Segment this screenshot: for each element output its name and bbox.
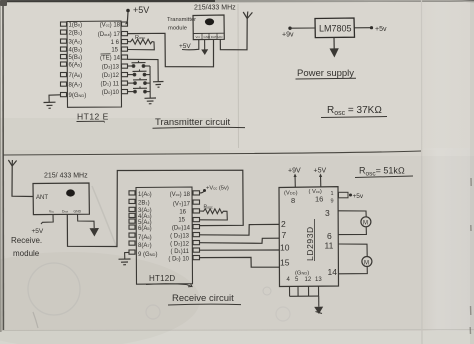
svg-text:M: M [363, 221, 368, 227]
label 215/433 MHz (RX) [44, 173, 88, 180]
svg-text:( D3)13: ( D3)13 [170, 234, 190, 240]
value label Rosc = 51kOhm [355, 166, 413, 178]
svg-text:13: 13 [315, 277, 322, 283]
svg-text:(D2)12: (D2)12 [102, 73, 120, 79]
node +5V (TX module) [179, 43, 191, 50]
IC U4 L293D motor driver body [279, 187, 339, 287]
svg-text:(Vcc) 18: (Vcc) 18 [170, 192, 191, 198]
svg-text:7: 7 [282, 230, 287, 240]
wires L293D pins 4,5,12,13 to ground [290, 286, 319, 307]
svg-text:3: 3 [325, 208, 330, 218]
svg-text:215/ 433 MHz: 215/ 433 MHz [44, 173, 88, 180]
svg-text:15: 15 [178, 218, 185, 224]
wire Dout pin 17 to TX module DATA [128, 33, 214, 67]
svg-text:6(A5): 6(A5) [69, 63, 83, 69]
wire +5V to L293D pin 16 [319, 174, 322, 187]
value label Rosc (HT12E) [135, 35, 145, 41]
node +5V (LM7805 output) [370, 26, 387, 33]
svg-text:(Vcc) 18: (Vcc) 18 [100, 23, 121, 29]
svg-text:+5V: +5V [133, 5, 149, 15]
svg-text:6: 6 [327, 231, 332, 241]
wire LM7805 output to +5V node [355, 27, 372, 29]
IC U1 HT12E encoder body [61, 21, 128, 107]
svg-text:7(A6): 7(A6) [138, 235, 152, 241]
wire LM7805 GND [333, 37, 335, 48]
pushbutton S2 (D2, pin12) [128, 69, 151, 75]
svg-text:9(GND): 9(GND) [69, 93, 87, 99]
wire D0 (pin10) to L293D pin 15 [200, 257, 280, 267]
svg-text:(D3)13: (D3)13 [102, 65, 120, 71]
HT12E left pin labels 1(A0)..9(GND) [69, 23, 87, 100]
svg-text:Vcc: Vcc [49, 210, 55, 214]
svg-text:Power supply: Power supply [297, 68, 354, 79]
label Transmitter module [167, 17, 196, 32]
svg-text:16: 16 [179, 210, 186, 216]
svg-text:11: 11 [325, 241, 334, 251]
wire +5V node to pin 18 [126, 12, 129, 24]
svg-text:+5V: +5V [32, 228, 44, 235]
svg-text:4(B3): 4(B3) [69, 48, 83, 54]
label Receiver module [11, 236, 42, 258]
pushbutton S3 (D1, pin11) [128, 78, 151, 84]
svg-text:+5v: +5v [353, 193, 364, 200]
svg-text:1(A0): 1(A0) [138, 192, 152, 198]
label 215/433 MHz (TX) [194, 5, 236, 12]
label Receive circuit [168, 293, 241, 305]
wire +9V to LM7805 input [290, 27, 315, 29]
svg-text:+Vcc (5v): +Vcc (5v) [206, 186, 229, 192]
svg-text:module: module [13, 249, 40, 258]
svg-text:5(B4): 5(B4) [69, 55, 83, 61]
svg-text:7(A6): 7(A6) [69, 73, 83, 79]
svg-text:3(A2): 3(A2) [69, 40, 83, 46]
svg-text:( D0) 10: ( D0) 10 [168, 257, 189, 263]
wire D3 (pin13) to L293D pin 2 [200, 224, 280, 235]
antenna (RX) [8, 160, 16, 166]
transmitter module TX1 (215/433 MHz) [193, 15, 224, 40]
svg-text:GND: GND [74, 210, 82, 214]
receiver module RX1 (215/433 MHz) [33, 183, 89, 215]
L293D pins 1,9 enable stub [331, 191, 349, 205]
node +5V (L293D Vcc) [314, 168, 327, 175]
svg-text:LD293D: LD293D [305, 226, 315, 261]
svg-text:Receive circuit: Receive circuit [172, 293, 234, 304]
L293D right pin labels 3 6 11 14 [325, 208, 338, 277]
wire pin 3 to motor M1 [339, 211, 367, 217]
svg-text:AN: AN [218, 35, 222, 39]
node +5V (L293D enable 1,9) [349, 193, 364, 200]
wire HT12D pin 9 to ground [125, 252, 129, 259]
wire RX GND pin [78, 214, 95, 228]
ground (HT12D) [119, 259, 131, 265]
antenna (TX) [243, 12, 252, 19]
wire RX Vcc to +5V [41, 215, 53, 225]
node +Vcc (5v) for HT12D pin 18 [203, 186, 229, 193]
resistor Rosc (HT12E oscillator) [128, 39, 155, 50]
divider line between transmitter and receiver sections [3, 151, 421, 155]
svg-text:(D0)10: (D0)10 [102, 90, 120, 96]
L293D ground pin labels (GND) 4 5 12 13 [287, 271, 323, 284]
wire motor M1 to pin 6 [339, 227, 367, 235]
ground (TX module GND pin) [201, 40, 208, 56]
wire +9V to L293D pin 8 [294, 174, 297, 188]
svg-text:+5V: +5V [179, 43, 191, 50]
svg-text:(Din)14: (Din)14 [172, 226, 191, 232]
svg-text:(TE) 14: (TE) 14 [100, 56, 121, 62]
svg-text:+5V: +5V [314, 168, 327, 175]
ground (L293D) [314, 307, 323, 314]
ground (LM7805) [330, 48, 339, 57]
svg-text:+5v: +5v [375, 26, 387, 33]
svg-text:6(A5): 6(A5) [138, 226, 152, 232]
svg-text:2(B1): 2(B1) [69, 31, 83, 37]
svg-text:2B1): 2B1) [138, 201, 150, 207]
regulator U2 LM7805 [315, 18, 355, 38]
svg-text:ANT: ANT [36, 195, 48, 201]
svg-text:8(A7): 8(A7) [138, 243, 152, 249]
label HT12E [77, 112, 109, 123]
wire TX ANT pin to antenna [220, 19, 247, 50]
L293D left pin labels 2 7 10 15 [280, 219, 290, 268]
node +5V (HT12E Vcc) [126, 5, 149, 15]
label Power supply [296, 68, 357, 79]
wire D1 (pin11) to L293D pin 10 [200, 249, 280, 251]
HT12E right pin labels (Vcc)18..(D0)10 [98, 23, 121, 97]
ground (RX module) [90, 228, 100, 237]
svg-text:9: 9 [331, 199, 334, 205]
HT12D left pin labels 1(A0)..9(GND) [138, 192, 157, 258]
svg-text:HT12D: HT12D [149, 274, 175, 283]
svg-text:(Dout) 17: (Dout) 17 [98, 32, 121, 38]
wire motor M2 to pin 14 [339, 267, 368, 274]
svg-text:( D2)12: ( D2)12 [170, 242, 190, 248]
pushbutton S4 (D0, pin10) [128, 86, 151, 92]
resistor Rosc (HT12D oscillator) [200, 209, 228, 220]
svg-text:Transmitter circuit: Transmitter circuit [155, 117, 230, 128]
svg-text:15: 15 [111, 48, 118, 54]
svg-text:( D1)11: ( D1)11 [171, 249, 190, 255]
svg-text:(D1) 11: (D1) 11 [101, 82, 120, 88]
HT12D right pin labels (Vcc)18..(D0)10 [168, 192, 190, 263]
svg-text:14: 14 [328, 267, 338, 277]
svg-text:Receive.: Receive. [11, 236, 42, 245]
svg-text:M: M [364, 260, 369, 266]
svg-text:+9V: +9V [288, 168, 301, 175]
value label Rosc = 37KOhm [321, 105, 387, 118]
motor M2 [362, 257, 372, 267]
wire +5V to TX Vcc pin [182, 40, 199, 50]
ground (HT12E pin 9) [44, 102, 56, 108]
wire RX Dout to HT12D Din (loop over IC) [67, 170, 243, 246]
pushbutton S1 (D3, pin13) [128, 61, 151, 67]
IC U3 HT12D decoder body [129, 187, 200, 284]
node +5V (RX module) [32, 228, 44, 235]
svg-text:1 6: 1 6 [111, 40, 120, 46]
wire D2 (pin12) to L293D pin 7 [200, 238, 280, 243]
wire button bus to ground [149, 66, 151, 98]
wire TE pin 14 to ground [128, 59, 159, 81]
svg-text:8: 8 [291, 196, 295, 205]
svg-text:8(A7): 8(A7) [69, 83, 83, 89]
svg-text:12: 12 [305, 277, 312, 283]
node +9V (L293D VDD) [288, 168, 301, 175]
node +9V (supply input) [282, 27, 294, 39]
svg-text:Dout: Dout [62, 210, 68, 214]
svg-text:16: 16 [315, 195, 323, 204]
svg-text:9 (GND): 9 (GND) [138, 252, 157, 258]
wire pin 11 to motor M2 [339, 244, 368, 257]
L293D top pin labels (VDD)8 and (Vcc)16 [284, 189, 323, 205]
wire pin 18 to +Vcc node [200, 191, 205, 193]
wire antenna to RX ANT pin [12, 166, 33, 197]
svg-text:15: 15 [280, 258, 290, 268]
svg-text:1(B0): 1(B0) [69, 23, 83, 29]
svg-text:10: 10 [280, 243, 290, 253]
svg-text:(VT)17: (VT)17 [173, 202, 191, 208]
label Transmitter circuit [153, 117, 246, 128]
label HT12D [146, 274, 192, 287]
value label Rosc (HT12D) [204, 205, 213, 211]
svg-text:+9v: +9v [282, 32, 294, 39]
wire HT12E pin 9 to ground [49, 95, 61, 103]
svg-text:LM7805: LM7805 [319, 24, 352, 34]
ground (TE) [153, 82, 164, 88]
svg-text:module: module [168, 26, 187, 32]
ground (buttons) [145, 98, 157, 104]
motor M1 [361, 217, 371, 227]
svg-text:Transmitter: Transmitter [167, 17, 196, 23]
svg-text:HT12 E: HT12 E [77, 112, 109, 122]
svg-text:DATA: DATA [211, 35, 219, 39]
svg-text:215/433 MHz: 215/433 MHz [194, 5, 236, 12]
svg-text:1: 1 [331, 191, 334, 197]
svg-text:2: 2 [281, 219, 286, 229]
